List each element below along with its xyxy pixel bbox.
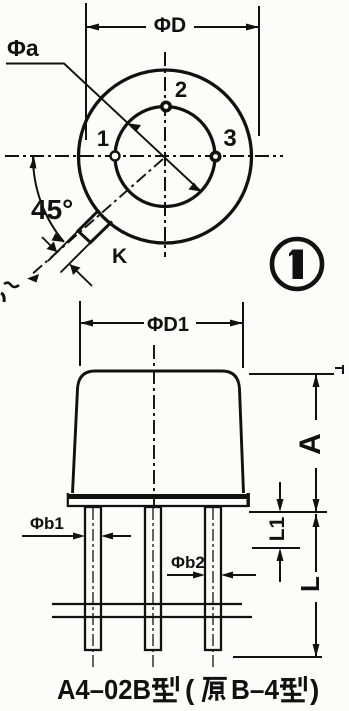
pin right bbox=[205, 507, 221, 650]
pin 1 label bbox=[97, 126, 109, 151]
45 degree label bbox=[31, 194, 73, 225]
dimension Φb1 label bbox=[30, 514, 64, 533]
dimension K extension line upper bbox=[48, 225, 84, 261]
dimension K extension line lower bbox=[61, 237, 97, 273]
dimension Φa arrow at inner circle SE bbox=[189, 183, 202, 192]
dimension L1 arrows outside bbox=[277, 482, 284, 582]
svg-text:A: A bbox=[294, 433, 327, 455]
svg-text:K: K bbox=[112, 245, 127, 268]
dimension ΦD1 line with arrows bbox=[80, 320, 243, 327]
dimension A line with arrows bbox=[313, 374, 320, 512]
pin 3 bbox=[211, 152, 219, 160]
dimension L label bbox=[295, 576, 325, 592]
45 degree arc arrow at tab centerline bbox=[52, 233, 65, 242]
dimension Φb2 label bbox=[171, 553, 205, 572]
extension line pin end right bbox=[233, 656, 322, 658]
locating tab bbox=[78, 210, 112, 243]
svg-text:2: 2 bbox=[175, 77, 187, 102]
svg-text:Φb2: Φb2 bbox=[171, 553, 205, 572]
pin 3 label bbox=[223, 125, 236, 152]
svg-text:L1: L1 bbox=[266, 516, 289, 541]
caption closing parenthesis bbox=[310, 674, 319, 705]
dimension A label bbox=[294, 433, 327, 455]
dimension Φa leader line bbox=[6, 64, 201, 192]
svg-text:): ) bbox=[310, 674, 319, 705]
board line upper bbox=[52, 603, 242, 605]
svg-text:(: ( bbox=[185, 674, 195, 705]
svg-text:1: 1 bbox=[97, 126, 109, 151]
dimension Φb2 arrows bbox=[167, 572, 256, 579]
pin 1 bbox=[111, 152, 120, 161]
horizontal centerline bbox=[5, 155, 283, 157]
svg-text:A4–02B: A4–02B bbox=[57, 674, 151, 705]
dimension L1 label bbox=[266, 516, 289, 541]
dimension ΦD text bbox=[154, 14, 186, 37]
dimension ΦD extension line left bbox=[85, 3, 87, 140]
svg-text:3: 3 bbox=[223, 125, 236, 152]
pin right centerline bbox=[212, 508, 214, 668]
dimension Φa label bbox=[7, 35, 39, 61]
svg-text:45°: 45° bbox=[31, 194, 73, 225]
dimension ΦD line with arrows bbox=[86, 24, 259, 31]
dimension K label bbox=[112, 245, 127, 268]
board line lower bbox=[52, 616, 252, 618]
pin 2 label bbox=[175, 77, 187, 102]
pin 2 bbox=[162, 102, 170, 110]
inner circle (pin circle Φa) bbox=[115, 107, 215, 207]
svg-text:B–4: B–4 bbox=[231, 674, 279, 705]
svg-text:ΦD: ΦD bbox=[154, 14, 186, 37]
caption CJK xing glyph 1 bbox=[152, 676, 177, 701]
stray pen mark bottom-left of top view bbox=[1, 283, 19, 302]
svg-text:ΦD1: ΦD1 bbox=[147, 314, 189, 336]
caption CJK yuan glyph bbox=[203, 678, 227, 702]
dimension L line with arrows bbox=[313, 514, 320, 657]
outer circle (can body ΦD) bbox=[79, 70, 252, 243]
dimension ΦD1 extension line right bbox=[242, 302, 244, 368]
svg-text:L: L bbox=[295, 576, 325, 592]
dimension Φb1 arrows bbox=[22, 533, 131, 540]
extension line pin step right bbox=[252, 547, 300, 549]
vertical centerline bbox=[164, 52, 166, 257]
45 degree arc arrow at centerline bbox=[30, 156, 37, 169]
side view vertical centerline bbox=[153, 345, 155, 512]
caption B-4 bbox=[231, 674, 279, 705]
flange (base plate) bbox=[67, 493, 249, 507]
dimension K line with outside arrows bbox=[42, 237, 92, 286]
tab centerline end arrow bbox=[27, 274, 39, 283]
svg-text:Φb1: Φb1 bbox=[30, 514, 64, 533]
dimension Φa arrow at inner circle NW bbox=[130, 124, 142, 133]
45 degree angle arc bbox=[33, 157, 64, 242]
dimension ΦD extension line right bbox=[258, 6, 260, 136]
dimension ΦD1 text bbox=[147, 314, 189, 336]
pin middle bbox=[145, 507, 161, 650]
caption parenthesis bbox=[185, 674, 195, 705]
caption CJK xing glyph 2 bbox=[280, 676, 305, 701]
caption A4-02B model designation bbox=[57, 674, 151, 705]
extension line flange bottom right bbox=[249, 511, 327, 513]
can body outline bbox=[73, 371, 244, 493]
svg-text:Φa: Φa bbox=[7, 35, 39, 61]
pin middle centerline bbox=[152, 508, 154, 668]
figure number circled 1 bbox=[272, 239, 322, 289]
pin left bbox=[85, 507, 101, 650]
pin left centerline bbox=[92, 508, 94, 668]
dimension ΦD1 extension line left bbox=[79, 301, 81, 366]
tab centerline 45 degrees dash-dot bbox=[30, 159, 163, 276]
extension line can top right bbox=[249, 365, 343, 374]
